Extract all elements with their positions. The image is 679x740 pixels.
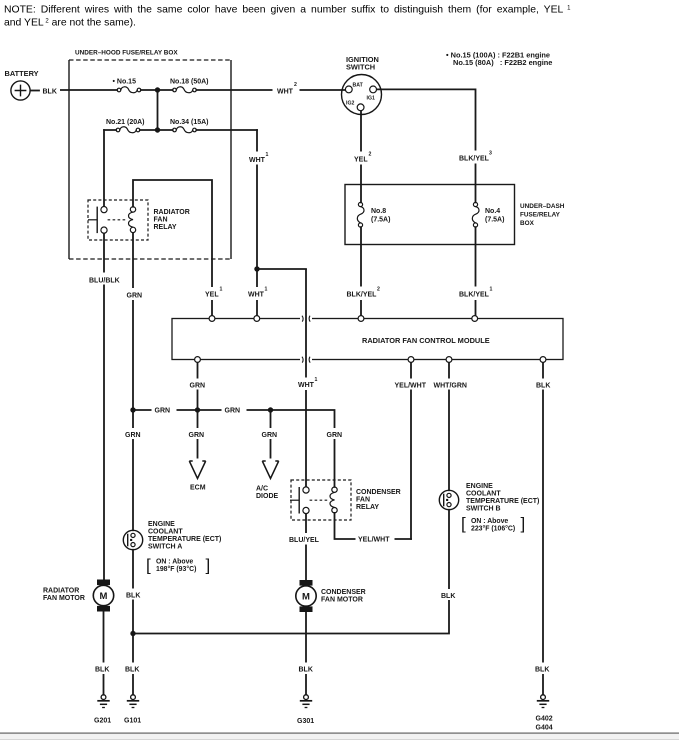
svg-text:3: 3 [489,151,492,157]
svg-text:ENGINE: ENGINE [466,483,493,490]
svg-text:SWITCH A: SWITCH A [148,544,182,551]
svg-text:(7.5A): (7.5A) [371,217,390,224]
svg-text:RADIATOR: RADIATOR [43,588,79,595]
svg-text:No.15 (80A) : F22B2 engine: No.15 (80A) : F22B2 engine [453,58,552,67]
svg-text:No.21 (20A): No.21 (20A) [106,119,145,126]
svg-text:GRN: GRN [127,293,143,300]
svg-text:WHT: WHT [248,292,265,299]
svg-text:YEL/WHT: YEL/WHT [395,383,427,390]
svg-text:WHT/GRN: WHT/GRN [434,383,467,390]
svg-text:WHT: WHT [298,382,315,389]
svg-text:]: ] [206,556,211,575]
svg-text:BAT: BAT [353,83,364,89]
svg-text:(7.5A): (7.5A) [485,217,504,224]
svg-text:BLK: BLK [441,593,455,600]
svg-text:[: [ [146,556,151,575]
svg-text:BLK: BLK [43,89,57,96]
svg-text:TEMPERATURE (ECT): TEMPERATURE (ECT) [148,536,221,543]
svg-text:BLK: BLK [536,383,550,390]
svg-text:YEL/WHT: YEL/WHT [358,537,390,544]
svg-text:ENGINE: ENGINE [148,521,175,528]
svg-text:GRN: GRN [189,432,205,439]
svg-text:RELAY: RELAY [356,504,379,511]
svg-text:BLK: BLK [535,667,549,674]
svg-text:G404: G404 [536,725,553,732]
svg-text:ECM: ECM [190,485,206,492]
svg-text:BLU/YEL: BLU/YEL [289,537,320,544]
svg-text:2: 2 [294,82,297,88]
svg-text:DIODE: DIODE [256,493,279,500]
svg-text:GRN: GRN [155,408,171,415]
svg-text:TEMPERATURE (ECT): TEMPERATURE (ECT) [466,498,539,505]
svg-text:FAN MOTOR: FAN MOTOR [43,595,85,602]
svg-text:GRN: GRN [125,432,141,439]
svg-text:GRN: GRN [262,432,278,439]
svg-text:RADIATOR: RADIATOR [154,209,190,216]
svg-text:BLK/YEL: BLK/YEL [459,156,490,163]
svg-text:BLK: BLK [299,667,313,674]
svg-text:198°F (93°C): 198°F (93°C) [156,565,196,573]
svg-text:No.8: No.8 [371,208,386,215]
svg-text:1: 1 [265,287,268,293]
svg-text:SWITCH: SWITCH [346,63,375,72]
svg-text:G301: G301 [297,718,314,725]
svg-text:]: ] [521,514,526,533]
svg-text:FUSE/RELAY: FUSE/RELAY [520,212,561,219]
svg-text:No.4: No.4 [485,208,500,215]
svg-text:BLK: BLK [125,667,139,674]
svg-text:BOX: BOX [520,220,535,227]
svg-text:ON : Above: ON : Above [156,559,193,566]
svg-text:2: 2 [369,152,372,158]
svg-text:GRN: GRN [327,432,343,439]
svg-text:1: 1 [220,287,223,293]
svg-text:UNDER–DASH: UNDER–DASH [520,203,565,210]
svg-text:No.34 (15A): No.34 (15A) [170,119,209,126]
svg-text:GRN: GRN [190,383,206,390]
svg-text:YEL: YEL [354,157,368,164]
svg-text:BLU/BLK: BLU/BLK [89,278,120,285]
svg-text:1: 1 [315,377,318,383]
svg-text:UNDER–HOOD FUSE/RELAY BOX: UNDER–HOOD FUSE/RELAY BOX [75,50,178,57]
svg-text:No.18 (50A): No.18 (50A) [170,79,209,86]
svg-text:FAN: FAN [154,217,168,224]
svg-text:BLK: BLK [95,667,109,674]
svg-text:BLK/YEL: BLK/YEL [459,292,490,299]
svg-text:A/C: A/C [256,486,268,493]
svg-text:GRN: GRN [225,408,241,415]
svg-text:WHT: WHT [277,89,294,96]
svg-text:COOLANT: COOLANT [466,491,501,498]
svg-text:YEL: YEL [205,292,219,299]
svg-text:BLK: BLK [126,593,140,600]
svg-text:WHT: WHT [249,157,266,164]
svg-text:1: 1 [266,152,269,158]
svg-text:1: 1 [490,287,493,293]
svg-text:SWITCH B: SWITCH B [466,506,501,513]
svg-text:[: [ [461,514,466,533]
svg-text:RELAY: RELAY [154,224,177,231]
svg-text:G101: G101 [124,718,141,725]
svg-text:• No.15: • No.15 [113,79,137,86]
svg-text:IG1: IG1 [367,96,375,102]
svg-text:FAN: FAN [356,497,370,504]
svg-text:BLK/YEL: BLK/YEL [347,292,378,299]
svg-text:and YEL 2 are not the same).: and YEL 2 are not the same). [4,18,136,29]
svg-text:BATTERY: BATTERY [5,69,39,78]
svg-text:G201: G201 [94,718,111,725]
svg-text:IG2: IG2 [346,101,354,107]
svg-text:223°F (106°C): 223°F (106°C) [471,525,515,533]
svg-text:2: 2 [377,287,380,293]
svg-text:NOTE: Different wires with th: NOTE: Different wires with the same colo… [4,5,571,16]
svg-text:FAN MOTOR: FAN MOTOR [321,597,363,604]
svg-text:COOLANT: COOLANT [148,529,183,536]
svg-text:RADIATOR FAN CONTROL MODULE: RADIATOR FAN CONTROL MODULE [362,336,490,345]
svg-text:CONDENSER: CONDENSER [356,489,401,496]
svg-text:ON : Above: ON : Above [471,518,508,525]
svg-text:CONDENSER: CONDENSER [321,589,366,596]
svg-text:G402: G402 [536,716,553,723]
